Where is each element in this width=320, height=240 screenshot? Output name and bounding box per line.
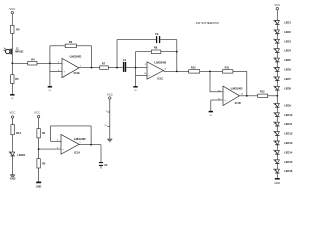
svg-text:VCC: VCC — [9, 7, 15, 11]
resistor R1 — [37, 129, 46, 159]
wire op2 + input stub — [136, 74, 148, 76]
wire R11 to output vertical — [233, 71, 247, 95]
wire — [276, 90, 278, 103]
wire C3 row left — [117, 39, 156, 41]
svg-text:GND: GND — [10, 177, 16, 180]
node Y — [135, 67, 137, 69]
svg-text:LM324D: LM324D — [154, 61, 167, 65]
wire — [276, 145, 278, 151]
power net VCC (LED column) — [274, 3, 280, 20]
LED01 (indicator) — [9, 152, 26, 175]
svg-text:VCC: VCC — [107, 92, 113, 96]
resistor R6 — [11, 25, 21, 63]
svg-text:0V: 0V — [49, 90, 52, 92]
op-amp IC1A (reference buffer) — [57, 135, 86, 155]
svg-text:GND: GND — [36, 186, 42, 189]
svg-text:GND: GND — [274, 181, 280, 185]
svg-text:-: - — [225, 91, 226, 94]
wire op3 + input to ground — [211, 100, 223, 111]
svg-text:0V: 0V — [11, 98, 14, 100]
svg-text:R1: R1 — [42, 131, 46, 135]
svg-text:R13: R13 — [16, 131, 21, 135]
svg-text:C3: C3 — [155, 32, 159, 36]
svg-text:9: 9 — [145, 64, 147, 66]
resistor R13 — [11, 125, 22, 153]
capacitor C3 — [155, 32, 160, 43]
svg-text:R7: R7 — [102, 62, 106, 66]
svg-text:R12: R12 — [260, 89, 265, 93]
ground (supply rail bottom) — [107, 139, 112, 142]
resistor R5 — [11, 63, 20, 94]
svg-text:-: - — [64, 62, 65, 65]
svg-text:R5: R5 — [15, 77, 19, 81]
node divider junction — [38, 148, 40, 150]
node op3 feedback — [246, 95, 248, 97]
svg-text:LED5: LED5 — [284, 58, 291, 62]
wire — [276, 154, 278, 160]
svg-text:LED01: LED01 — [17, 153, 26, 157]
wire — [276, 126, 278, 132]
LED7 — [274, 77, 292, 81]
svg-text:MPS21: MPS21 — [15, 50, 24, 54]
pin 11 stub — [104, 125, 109, 127]
ground (0V bottom of R5) — [10, 95, 14, 100]
wire op4 feedback loop — [51, 126, 92, 145]
svg-text:IC1B: IC1B — [74, 71, 80, 75]
wire op2 output — [163, 70, 164, 73]
wire — [276, 53, 278, 59]
svg-text:LM324D: LM324D — [70, 55, 83, 59]
resistor R3 — [65, 40, 76, 48]
wire — [276, 43, 278, 49]
node A3 — [209, 71, 211, 73]
wire — [276, 135, 278, 141]
svg-text:1: 1 — [79, 142, 81, 144]
wire op4 output — [79, 144, 101, 146]
svg-text:VCC: VCC — [34, 110, 40, 114]
svg-text:LED6: LED6 — [284, 68, 291, 72]
svg-text:LED16: LED16 — [284, 169, 293, 173]
LED8 — [274, 86, 292, 90]
LED13 — [274, 141, 293, 145]
svg-text:14: 14 — [241, 93, 244, 95]
resistor R8 — [151, 46, 160, 54]
LED6 — [274, 67, 292, 71]
svg-text:LED14: LED14 — [284, 150, 293, 154]
svg-text:LED15: LED15 — [284, 160, 293, 164]
node R8/vertical — [176, 51, 178, 53]
svg-text:8: 8 — [165, 69, 167, 71]
wire C3 row right — [160, 40, 177, 52]
wire C1 to op2 input — [126, 67, 147, 69]
ground GND (LED column) — [274, 179, 280, 185]
LED16 — [274, 169, 293, 173]
wire — [276, 62, 278, 68]
svg-text:0V: 0V — [134, 90, 137, 92]
svg-text:LED3: LED3 — [284, 39, 291, 43]
node op2 feedback — [176, 71, 178, 73]
svg-text:VCC: VCC — [9, 110, 15, 114]
svg-text:11: 11 — [104, 125, 107, 127]
node op1 feedback — [91, 67, 93, 69]
LED5 — [274, 58, 292, 62]
wire R8 row left — [136, 51, 152, 53]
LED10 — [274, 112, 293, 116]
LED12 — [274, 131, 293, 135]
capacitor C2 — [99, 163, 108, 169]
svg-text:LED12: LED12 — [284, 132, 293, 136]
wire — [276, 24, 278, 30]
wire — [276, 81, 278, 87]
microphone J1 MPS21 — [3, 47, 24, 55]
svg-text:LED11: LED11 — [284, 122, 292, 126]
LED14 — [274, 150, 293, 154]
wire R3 feedback row — [50, 45, 65, 47]
resistor R4 — [28, 57, 37, 65]
svg-text:-: - — [62, 141, 63, 144]
op-amp IC1C — [144, 61, 167, 81]
ground (0V under op1) — [48, 87, 52, 92]
wire R3 to output rail — [76, 46, 91, 68]
LED4 — [274, 48, 292, 52]
wire mic node to R4 — [12, 62, 27, 64]
wire R8 row right — [161, 51, 177, 53]
wire feedback/ground rail x=49.9 — [49, 46, 51, 87]
LED9 — [274, 103, 292, 107]
svg-text:C1: C1 — [123, 58, 127, 62]
wire divider to op4 + input — [39, 148, 61, 150]
svg-text:C2: C2 — [104, 163, 108, 167]
svg-text:R3: R3 — [69, 40, 73, 44]
LED15 — [274, 159, 293, 163]
ground GND (branch 2) — [36, 182, 42, 188]
svg-text:R6: R6 — [16, 28, 20, 32]
node A (op1 inverting input) — [49, 62, 51, 64]
svg-text:LED2: LED2 — [284, 30, 291, 34]
wire — [276, 71, 278, 77]
wire node X up to C3 row — [116, 40, 118, 68]
ground (0V under op3) — [209, 112, 213, 117]
power net VCC (branch 2 divider) — [34, 110, 40, 128]
wire node A3 down to op3 - input — [210, 71, 223, 91]
svg-text:LED1: LED1 — [284, 21, 291, 25]
power net VCC (branch 1 lower-left) — [9, 110, 15, 124]
svg-text:R10: R10 — [191, 66, 196, 70]
svg-text:LED7: LED7 — [284, 77, 291, 81]
svg-text:-: - — [148, 67, 149, 70]
svg-text:R11: R11 — [225, 65, 230, 69]
node X — [116, 67, 118, 69]
wire R7 to C1 — [108, 67, 122, 69]
resistor R7 — [100, 62, 109, 70]
svg-text:LED9: LED9 — [284, 103, 291, 107]
wire — [276, 107, 278, 113]
svg-text:1/R SCHEMATIC: 1/R SCHEMATIC — [196, 21, 220, 25]
LED11 — [274, 122, 293, 126]
resistor R12 — [258, 89, 268, 97]
svg-text:10: 10 — [144, 73, 147, 75]
svg-text:LED4: LED4 — [284, 49, 291, 53]
resistor R11 — [222, 65, 233, 73]
svg-text:IC1D: IC1D — [235, 101, 241, 105]
wire R10 to node A3 — [200, 70, 223, 72]
svg-text:R4: R4 — [31, 57, 35, 61]
LED2 — [274, 30, 292, 34]
svg-text:LM324D: LM324D — [231, 86, 244, 90]
capacitor C1 — [123, 58, 127, 72]
power net VCC (top-left) — [9, 7, 15, 25]
LED3 — [274, 39, 292, 43]
resistor R10 — [189, 66, 200, 74]
ground GND (branch 1) — [10, 175, 16, 180]
resistor R2 — [37, 159, 46, 182]
svg-text:LM324D: LM324D — [74, 137, 87, 141]
LED1 — [274, 20, 292, 24]
wire — [276, 173, 278, 178]
wire op3 output — [240, 95, 258, 97]
wire — [276, 34, 278, 40]
power net VCC (supply rail) — [107, 92, 113, 138]
wire R12 to LED column — [268, 95, 278, 97]
svg-text:R2: R2 — [42, 161, 46, 165]
svg-text:IC1C: IC1C — [157, 76, 163, 80]
svg-text:LED13: LED13 — [284, 141, 293, 145]
ground (0V under op2) — [133, 87, 137, 92]
wire op1 + input stub — [50, 70, 62, 72]
wire op1 output — [79, 67, 100, 69]
node op4 feedback — [90, 144, 92, 146]
op-amp IC1D — [218, 86, 244, 105]
pin 4 stub — [106, 110, 110, 112]
svg-text:LED8: LED8 — [284, 86, 291, 90]
svg-text:R8: R8 — [154, 46, 158, 50]
wire — [276, 117, 278, 123]
svg-text:0V: 0V — [209, 115, 212, 117]
node: mic junction — [11, 62, 13, 64]
svg-text:IC1A: IC1A — [74, 151, 80, 155]
op-amp IC1B — [58, 55, 82, 78]
svg-text:VCC: VCC — [274, 3, 280, 7]
wire output down to C2 — [100, 145, 102, 163]
wire R4 to op-amp input — [37, 62, 62, 64]
wire — [276, 164, 278, 170]
wire node Y rail (R8 feedback above, + ref below) — [135, 52, 137, 87]
node LED column mid — [276, 95, 278, 97]
svg-text:LED10: LED10 — [284, 113, 293, 117]
